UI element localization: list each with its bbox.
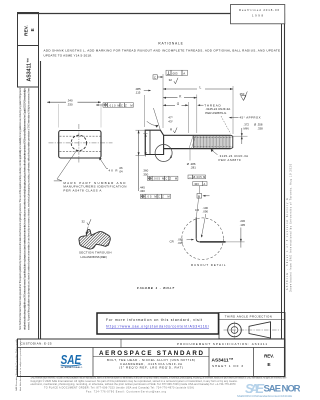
- svg-text:45° APPROX: 45° APPROX: [240, 116, 261, 120]
- 4X R leader: [99, 157, 102, 160]
- bottom thread callout: [211, 149, 214, 152]
- shank outline: [164, 134, 231, 136]
- svg-text:PROCUREMENT SPECIFICATION: AS3: PROCUREMENT SPECIFICATION: AS3411: [177, 342, 267, 346]
- svg-text:SAENORM.COM/standards/content/: SAENORM.COM/standards/content/AS3411E: [237, 394, 292, 398]
- FCF position frame: [96, 103, 133, 108]
- right end dims: [233, 135, 248, 137]
- svg-text:AS3411™: AS3411™: [27, 58, 33, 82]
- right margin rotated text: [286, 163, 293, 292]
- G dim: [163, 104, 175, 106]
- chamfer extension line + angle arc: [153, 108, 160, 130]
- svg-text:REV.: REV.: [24, 25, 30, 36]
- L dim: [163, 88, 197, 90]
- top-right stamp box: [231, 5, 285, 24]
- svg-text:RATIONALE: RATIONALE: [158, 41, 183, 45]
- marking note: [63, 181, 126, 193]
- svg-text:SHEET 1 OF 3: SHEET 1 OF 3: [212, 364, 243, 368]
- extension lines: [162, 74, 164, 128]
- width dimension .340/.330: [58, 104, 60, 128]
- svg-text:LUG AND BOSS (REF): LUG AND BOSS (REF): [81, 255, 108, 259]
- svg-text:REV.: REV.: [264, 354, 274, 359]
- svg-text:L: L: [200, 85, 202, 89]
- svg-text:C: C: [165, 177, 167, 181]
- centerline horizontal: [49, 142, 113, 144]
- svg-text:For more information on this s: For more information on this standard, v…: [106, 318, 202, 322]
- svg-text:.010 M: .010 M: [108, 103, 120, 107]
- profile: [195, 218, 197, 239]
- svg-text:.003: .003: [172, 71, 178, 75]
- sheet borders: [18, 13, 285, 377]
- svg-text:CR: CR: [170, 239, 174, 243]
- THREAD note: [197, 104, 200, 106]
- svg-text:Fax: 724-776-0790 Email: Cu: Fax: 724-776-0790 Email: CustomerService…: [86, 390, 167, 393]
- svg-text:.090: .090: [203, 210, 209, 214]
- svg-text:.04: .04: [119, 170, 123, 174]
- svg-text:(3" REQ'D REF, LRG REQ'D, RAT): (3" REQ'D REF, LRG REQ'D, RAT): [119, 366, 183, 370]
- svg-text:.05 M: .05 M: [146, 195, 157, 199]
- threads: [194, 136, 232, 149]
- svg-text:PER AS8879-G: PER AS8879-G: [205, 111, 227, 115]
- svg-text:THIRD ANGLE PROJECTION: THIRD ANGLE PROJECTION: [225, 315, 272, 319]
- svg-text:AEROSPACE STANDARD: AEROSPACE STANDARD: [99, 350, 204, 357]
- svg-text:SAE: SAE: [245, 381, 264, 396]
- svg-text:4X R: 4X R: [109, 168, 118, 172]
- SAE logo: [61, 353, 83, 369]
- svg-text:INTERNATIONAL®: INTERNATIONAL®: [61, 366, 83, 369]
- hidden lines: [60, 135, 101, 137]
- head outline: [59, 131, 101, 159]
- shank dia callout: [189, 149, 191, 161]
- svg-text:that this document is subject: that this document is subject to periodi…: [19, 339, 22, 391]
- svg-text:CUSTODIAN: E-25: CUSTODIAN: E-25: [21, 341, 52, 345]
- svg-text:Reaffirmed 2018-06: Reaffirmed 2018-06: [239, 8, 279, 12]
- svg-text:Z M: Z M: [162, 195, 170, 199]
- svg-text:32: 32: [82, 219, 86, 223]
- svg-text:Downloaded from SAE Internatio: Downloaded from SAE International by Uni…: [290, 163, 293, 292]
- svg-text:SAE NORM: SAE NORM: [264, 383, 301, 394]
- svg-text:SAE Technical Standards Board: SAE Technical Standards Board Rules prov…: [19, 88, 22, 330]
- datum C + perpendicularity frame: [153, 75, 157, 79]
- detail circle A: [155, 145, 172, 162]
- svg-text:.195: .195: [240, 223, 246, 227]
- FCF a: [148, 176, 178, 180]
- leader to marking note: [57, 151, 77, 181]
- FCF runout: [188, 175, 206, 179]
- left margin rotated disclaimer: [15, 87, 30, 391]
- svg-text:FIGURE 1 - BOLT: FIGURE 1 - BOLT: [137, 286, 175, 290]
- svg-text:TO PLACE A DOCUMENT ORDER:: TO PLACE A DOCUMENT ORDER: Tel: 877-606-…: [44, 386, 194, 389]
- svg-text:C: C: [158, 195, 160, 199]
- svg-text:.303: .303: [194, 182, 200, 186]
- shank circle: [71, 135, 86, 150]
- head outline side: [145, 130, 163, 154]
- svg-text:reserved. No part of this publ: reserved. No part of this publication ma…: [28, 87, 31, 330]
- svg-text:.115: .115: [135, 91, 141, 95]
- svg-text:A: A: [183, 71, 185, 75]
- svg-text:43°: 43°: [168, 120, 173, 124]
- svg-text:PER AS8879: PER AS8879: [219, 158, 241, 162]
- svg-text:Ø.005 M: Ø.005 M: [193, 176, 205, 179]
- svg-text:.430: .430: [139, 189, 145, 193]
- svg-text:A: A: [204, 182, 206, 186]
- svg-text:.005 M: .005 M: [153, 177, 165, 181]
- FCF b: [141, 194, 171, 198]
- svg-text:SECTION THROUGH: SECTION THROUGH: [79, 251, 112, 255]
- svg-text:RUNOUT DETAIL: RUNOUT DETAIL: [191, 263, 226, 267]
- svg-text:32: 32: [169, 78, 173, 82]
- svg-text:.338: .338: [257, 127, 263, 131]
- svg-text:https://www.sae.org/standards/: https://www.sae.org/standards/content/AS…: [106, 325, 209, 329]
- svg-text:B: B: [198, 194, 200, 198]
- centerline vertical: [78, 124, 80, 163]
- svg-text:AS3411™: AS3411™: [212, 357, 234, 363]
- svg-text:PER AS478 CLASS A: PER AS478 CLASS A: [63, 189, 101, 193]
- svg-text:.350: .350: [143, 173, 149, 177]
- basic dim box: [193, 182, 207, 186]
- svg-text:.035: .035: [178, 241, 184, 245]
- svg-text:.281: .281: [190, 166, 196, 170]
- svg-text:C: C: [121, 103, 123, 107]
- rev box rotated text: [24, 25, 36, 81]
- head height dims: [136, 129, 146, 131]
- K dim: [163, 97, 178, 99]
- svg-text:.330: .330: [67, 102, 73, 106]
- datum B flag top: [198, 186, 200, 194]
- thread runout diagonals: [189, 136, 193, 149]
- svg-text:250: 250: [240, 92, 245, 96]
- svg-text:ADD SHANK LENGTHS L, ADD MARKI: ADD SHANK LENGTHS L, ADD MARKING FOR THR…: [44, 48, 281, 52]
- svg-text:Z M: Z M: [170, 177, 178, 181]
- svg-text:arising therefrom, is the sole: arising therefrom, is the sole responsib…: [23, 87, 26, 330]
- svg-text:MIN: MIN: [244, 127, 249, 131]
- svg-text:UPDATE TO ASME Y14.5-2018.: UPDATE TO ASME Y14.5-2018.: [44, 54, 93, 58]
